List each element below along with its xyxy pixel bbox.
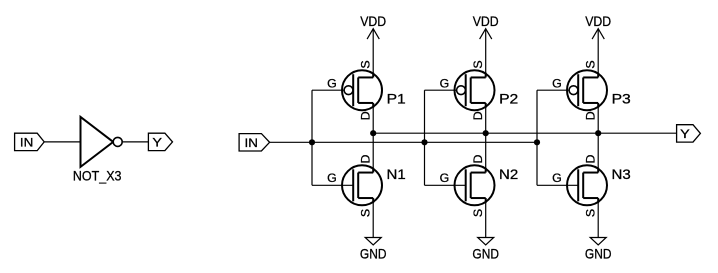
- junction input/gate2: [421, 139, 427, 145]
- wire P1 drain to N1 drain: [372, 105, 374, 171]
- inverter NOT_X3 triangle: [81, 117, 114, 167]
- port IN (inverter symbol section): [15, 133, 45, 150]
- wire N1 gate stub: [312, 184, 354, 186]
- svg-text:Y: Y: [680, 127, 690, 141]
- svg-text:P1: P1: [387, 92, 406, 107]
- transistor P1: [327, 60, 406, 120]
- wire P2 gate stub: [425, 89, 458, 91]
- port IN (transistor schematic): [239, 134, 270, 151]
- wire N2 source to GND: [485, 200, 487, 238]
- svg-text:P2: P2: [499, 92, 518, 107]
- junction input/gate3: [534, 139, 540, 145]
- ground GND stage 2: [472, 238, 499, 263]
- transistor N3: [552, 155, 631, 218]
- transistor N1: [327, 155, 406, 218]
- wire P3 drain to N3 drain: [597, 105, 599, 171]
- wire N3 gate stub: [537, 184, 579, 186]
- wire VDD to P2 source: [485, 29, 487, 75]
- wire N2 gate stub: [425, 184, 467, 186]
- wire output bus: [373, 132, 676, 134]
- wire VDD to P3 source: [597, 29, 599, 75]
- svg-text:IN: IN: [20, 135, 33, 149]
- wire N3 source to GND: [597, 200, 599, 238]
- junction drain2/output: [483, 130, 489, 136]
- transistor N2: [440, 155, 519, 218]
- wire P1 gate stub: [312, 89, 345, 91]
- wire gate stem stage 1: [311, 90, 313, 185]
- ground GND stage 3: [585, 238, 612, 263]
- svg-text:IN: IN: [245, 136, 258, 150]
- wire bubble to port Y: [122, 141, 148, 143]
- wire input bus: [270, 141, 537, 143]
- wire gate stem stage 3: [536, 90, 538, 185]
- transistor P3: [552, 60, 631, 120]
- wire N1 source to GND: [372, 200, 374, 238]
- port Y (inverter symbol section): [148, 133, 172, 150]
- wire gate stem stage 2: [424, 90, 426, 185]
- svg-text:N3: N3: [612, 167, 632, 182]
- power VDD stage 2: [473, 14, 499, 39]
- wire IN to inverter input: [44, 141, 80, 143]
- transistor P2: [440, 60, 519, 120]
- port Y (transistor schematic): [677, 125, 701, 142]
- svg-text:P3: P3: [612, 92, 632, 107]
- svg-text:NOT_X3: NOT_X3: [73, 169, 122, 184]
- junction input/gate1: [309, 139, 315, 145]
- wire P3 gate stub: [537, 89, 570, 91]
- power VDD stage 1: [360, 14, 386, 39]
- svg-text:Y: Y: [152, 135, 162, 149]
- junction drain3/output: [595, 130, 601, 136]
- power VDD stage 3: [585, 14, 611, 39]
- inverter output bubble: [113, 137, 122, 146]
- wire VDD to P1 source: [372, 29, 374, 75]
- ground GND stage 1: [360, 238, 387, 263]
- svg-text:N1: N1: [387, 167, 406, 182]
- wire P2 drain to N2 drain: [485, 105, 487, 171]
- svg-text:N2: N2: [499, 167, 518, 182]
- junction drain1/output: [370, 130, 376, 136]
